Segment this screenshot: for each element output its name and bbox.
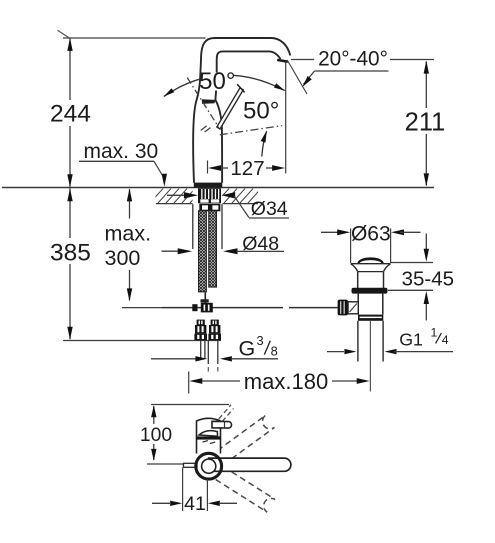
rod clamp <box>192 304 197 311</box>
angle arrow 50deg lower <box>262 131 267 156</box>
svg-text:8: 8 <box>271 344 278 359</box>
label O34 leader <box>234 196 249 218</box>
svg-text:211: 211 <box>405 109 446 137</box>
svg-text:Ø48: Ø48 <box>242 233 279 255</box>
svg-text:127: 127 <box>230 157 264 180</box>
swivel ring <box>196 453 222 479</box>
pop-up rod <box>162 307 283 309</box>
svg-text:20°-40°: 20°-40° <box>318 48 388 71</box>
dimension 41 <box>182 468 184 512</box>
dimension 244 <box>69 39 71 100</box>
threaded shank <box>198 188 221 203</box>
spout outlet lip <box>277 60 288 62</box>
dimension O48 <box>162 250 180 252</box>
deck top line <box>2 187 434 189</box>
dashed spout position upper <box>215 415 275 464</box>
bottom view faucet body <box>197 418 221 453</box>
lever axis dash-dot line <box>187 78 219 128</box>
pop-up rod drop <box>204 293 206 308</box>
bottom view left tab <box>184 463 198 467</box>
bottom view cap lens <box>199 431 218 437</box>
arc arrow right <box>274 83 285 90</box>
arc arrow left <box>164 88 174 96</box>
dimension 385 <box>69 188 71 238</box>
lever horizontal dash-dot line <box>220 126 282 135</box>
svg-text:max.: max. <box>105 221 152 245</box>
dimension 211 <box>425 62 427 109</box>
dimension 127 <box>207 161 209 174</box>
drain body <box>357 257 383 263</box>
svg-text:385: 385 <box>50 240 91 267</box>
lever handle <box>217 88 243 129</box>
dashed handle up position <box>214 405 232 425</box>
dimension O63 <box>350 229 352 264</box>
lever pivot marks <box>201 126 207 131</box>
outlet stream line <box>287 60 307 94</box>
svg-text:41: 41 <box>184 493 206 515</box>
svg-text:Ø63: Ø63 <box>351 222 391 245</box>
bottom view marks <box>203 441 208 442</box>
deck bottom line left <box>156 203 193 205</box>
G3/8 tail left <box>200 340 202 358</box>
label G1 1/4 <box>327 351 344 353</box>
svg-text:50°: 50° <box>199 68 235 95</box>
svg-text:G: G <box>239 336 256 360</box>
svg-text:Ø34: Ø34 <box>251 198 288 220</box>
svg-text:G1: G1 <box>399 330 423 350</box>
label G 3/8 <box>151 358 196 360</box>
shank outline left <box>192 204 194 249</box>
drain rod knob <box>338 300 348 316</box>
svg-text:100: 100 <box>140 425 172 446</box>
G3/8 nut right <box>211 320 219 325</box>
deck bottom line right <box>223 203 259 205</box>
mounting nut <box>199 204 220 212</box>
bottom view top extension line <box>151 404 229 406</box>
faucet body and spout outline <box>193 38 290 183</box>
base plate <box>194 183 223 188</box>
shank outline right <box>221 204 223 249</box>
spout capsule solid <box>209 458 291 471</box>
svg-text:max.180: max.180 <box>244 369 328 394</box>
dimension 35-45 <box>390 262 433 264</box>
G3/8 tail right <box>207 340 209 364</box>
shank arrows (O34) <box>167 194 185 196</box>
drain tailpipe <box>357 321 359 362</box>
lever tip tick <box>237 84 244 92</box>
dimension 100 <box>153 406 155 424</box>
angle arc 50deg <box>164 75 285 96</box>
svg-text:244: 244 <box>50 100 91 127</box>
label 20-40deg <box>291 59 314 61</box>
svg-text:50°: 50° <box>243 98 279 125</box>
lever joint wedge <box>202 99 216 104</box>
dimension max 180 <box>188 372 190 394</box>
dashed spout position lower <box>216 467 276 512</box>
drain rod fitting <box>348 302 358 314</box>
svg-text:1: 1 <box>431 325 438 339</box>
deck hatching right <box>216 189 261 203</box>
swivel inner circle <box>202 459 216 473</box>
dimension max 300 <box>129 189 131 218</box>
bottom view handle pin <box>212 421 232 428</box>
svg-text:max. 30: max. 30 <box>84 140 159 163</box>
supply hose right <box>209 211 217 287</box>
svg-text:300: 300 <box>105 246 141 270</box>
svg-text:3: 3 <box>257 333 264 348</box>
svg-text:4: 4 <box>442 333 449 347</box>
svg-text:35-45: 35-45 <box>402 267 454 290</box>
supply hose left <box>199 211 207 292</box>
label 50deg upper <box>202 73 234 91</box>
leader 20-40 <box>304 71 315 84</box>
label 50deg lower <box>246 102 278 120</box>
bottom view joint band <box>196 436 221 439</box>
deck hatching left <box>150 189 211 203</box>
G3/8 nut left <box>197 320 205 325</box>
